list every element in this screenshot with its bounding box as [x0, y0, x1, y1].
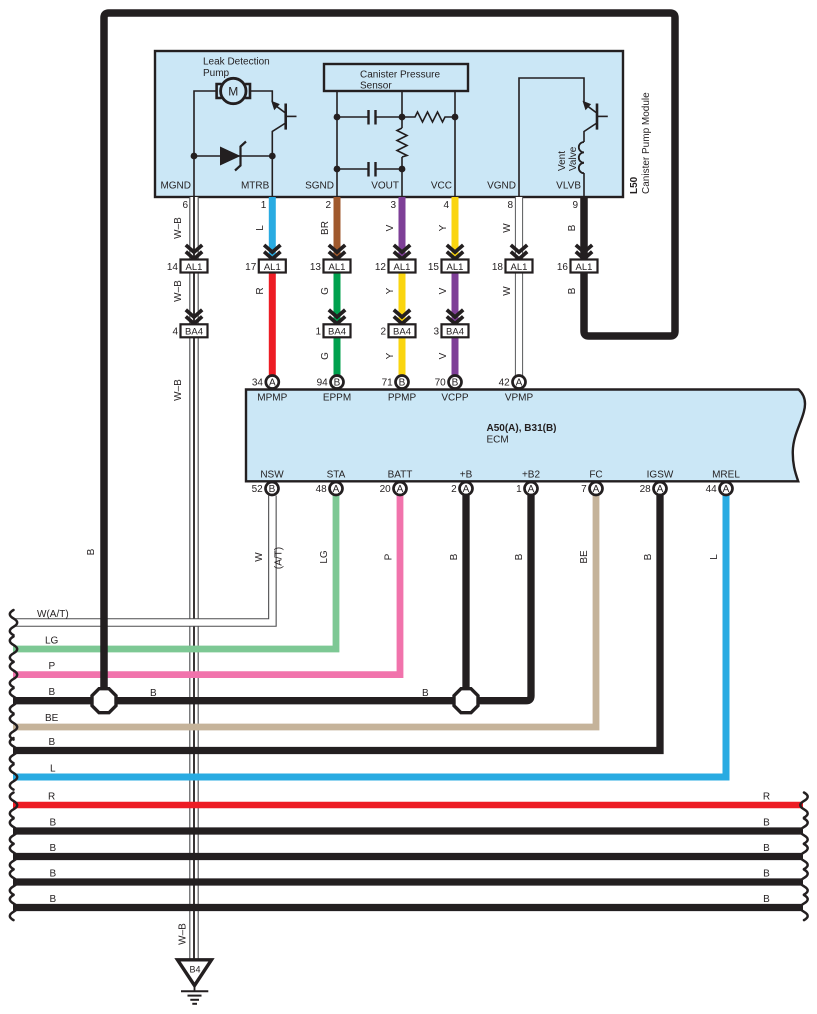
zener diode (pump) — [191, 142, 276, 171]
svg-text:AL1: AL1 — [264, 262, 281, 273]
resistor R2 (vertical) — [397, 128, 407, 157]
wire B (+B drop) — [462, 496, 469, 693]
wire W-B (MGND to ground, full drop) — [189, 197, 199, 960]
svg-text:BA4: BA4 — [185, 327, 203, 338]
bus labels left — [37, 609, 69, 905]
svg-text:VOUT: VOUT — [371, 181, 399, 192]
svg-text:17: 17 — [245, 262, 257, 273]
connector BA4 1 — [315, 324, 350, 337]
rotated wire labels row 2 — [173, 280, 578, 302]
svg-text:13: 13 — [310, 262, 322, 273]
label Leak Detection Pump — [203, 57, 270, 80]
svg-text:B: B — [50, 894, 57, 905]
svg-text:B: B — [49, 687, 56, 698]
svg-text:34: 34 — [252, 378, 264, 389]
svg-text:B: B — [50, 818, 57, 829]
svg-text:MTRB: MTRB — [241, 181, 270, 192]
svg-text:AL1: AL1 — [186, 262, 203, 273]
svg-text:L: L — [709, 554, 720, 560]
svg-text:A50(A), B31(B): A50(A), B31(B) — [487, 423, 557, 434]
svg-text:28: 28 — [640, 484, 652, 495]
svg-text:4: 4 — [172, 327, 178, 338]
connector AL1 15 — [428, 260, 469, 273]
svg-text:16: 16 — [557, 262, 569, 273]
svg-text:R: R — [48, 792, 55, 803]
capacitor C1 (upper) — [337, 110, 402, 125]
svg-text:PPMP: PPMP — [388, 393, 417, 404]
svg-text:B: B — [763, 818, 770, 829]
svg-text:Pump: Pump — [203, 68, 230, 79]
canister pressure sensor box — [324, 64, 468, 91]
svg-text:R: R — [255, 287, 266, 294]
svg-text:48: 48 — [316, 484, 328, 495]
svg-text:B: B — [399, 378, 406, 389]
svg-text:44: 44 — [706, 484, 718, 495]
svg-text:B: B — [763, 843, 770, 854]
svg-text:Valve: Valve — [568, 146, 579, 171]
svg-text:FC: FC — [589, 470, 602, 481]
svg-text:L50: L50 — [629, 176, 640, 194]
svg-text:B: B — [643, 553, 654, 560]
svg-text:A: A — [657, 484, 664, 495]
svg-text:W–B: W–B — [178, 923, 189, 945]
svg-text:(A/T): (A/T) — [274, 547, 285, 569]
junction connector (octagon right) — [454, 689, 478, 713]
wire L (MREL drop + bus line) — [13, 496, 726, 778]
module pin numbers — [182, 200, 578, 211]
wire V (VOUT pin to AL1) — [399, 197, 406, 260]
ECM top pin names — [257, 393, 533, 404]
ECM pin 42 A (VPMP) — [499, 376, 526, 389]
svg-text:Canister Pressure: Canister Pressure — [360, 70, 440, 81]
svg-text:W–B: W–B — [173, 217, 184, 239]
transistor Q (pump driver) — [271, 101, 296, 156]
svg-text:2: 2 — [380, 327, 386, 338]
wire VCC vertical — [454, 91, 456, 197]
wire W (AL1 to VPMP) — [515, 273, 523, 376]
wire B (bus line 2) — [13, 853, 803, 860]
svg-text:EPPM: EPPM — [323, 393, 351, 404]
svg-text:+B2: +B2 — [522, 470, 541, 481]
svg-text:R: R — [763, 792, 770, 803]
svg-text:V: V — [438, 287, 449, 294]
svg-text:LG: LG — [45, 636, 59, 647]
svg-text:NSW: NSW — [260, 470, 284, 481]
svg-text:V: V — [438, 352, 449, 359]
wire W(A/T) (NSW drop + bus line) — [13, 496, 272, 623]
svg-text:12: 12 — [375, 262, 387, 273]
svg-text:+B: +B — [460, 470, 473, 481]
svg-text:BATT: BATT — [388, 470, 413, 481]
svg-text:W: W — [254, 552, 265, 562]
svg-text:B: B — [567, 287, 578, 294]
svg-text:ECM: ECM — [487, 435, 509, 446]
svg-text:STA: STA — [327, 470, 346, 481]
svg-text:1: 1 — [516, 484, 522, 495]
wire V (AL1 to VCPP) — [452, 273, 459, 376]
bus labels right — [763, 792, 770, 906]
wire BR (SGND pin to AL1) — [334, 197, 341, 260]
svg-text:3: 3 — [433, 327, 439, 338]
ECM bottom pin names — [260, 470, 740, 481]
svg-text:G: G — [320, 352, 331, 360]
wire R (AL1 to MPMP) — [269, 273, 276, 376]
junction connector (octagon left) — [92, 689, 116, 713]
rotated wire labels row 3 — [173, 352, 449, 401]
svg-text:B: B — [567, 224, 578, 231]
capacitor C2 (lower) — [337, 162, 402, 177]
svg-text:L: L — [255, 225, 266, 231]
svg-text:B4: B4 — [189, 965, 200, 975]
svg-text:B: B — [86, 548, 97, 555]
svg-text:W(A/T): W(A/T) — [37, 609, 69, 620]
connector BA4 4 — [172, 324, 207, 337]
ECM pin 44 A (MREL) — [706, 482, 733, 495]
ECM pin 34 A (MPMP) — [252, 376, 279, 389]
connector AL1 12 — [375, 260, 416, 273]
connector arrows AL1 row — [186, 245, 592, 259]
svg-text:AL1: AL1 — [511, 262, 528, 273]
wire SGND vertical — [336, 91, 338, 197]
svg-text:IGSW: IGSW — [647, 470, 674, 481]
svg-text:B: B — [150, 688, 157, 699]
junction dots sensor — [334, 114, 341, 121]
svg-text:B: B — [514, 553, 525, 560]
bus labels mid — [150, 688, 429, 699]
svg-text:VCPP: VCPP — [441, 393, 469, 404]
svg-text:B: B — [449, 553, 460, 560]
svg-text:P: P — [49, 661, 56, 672]
svg-text:B: B — [50, 843, 57, 854]
svg-text:Canister Pump Module: Canister Pump Module — [641, 92, 652, 194]
svg-text:Y: Y — [385, 287, 396, 294]
wire B thick (VLVB around border to junction) — [104, 13, 675, 692]
svg-text:AL1: AL1 — [576, 262, 593, 273]
svg-text:Leak Detection: Leak Detection — [203, 57, 270, 68]
svg-text:W–B: W–B — [173, 280, 184, 302]
connector arrows BA4 row — [186, 310, 463, 324]
ECM pin 94 B (EPPM) — [317, 376, 344, 389]
wire B (bus line 4) — [13, 904, 803, 911]
svg-text:B: B — [763, 894, 770, 905]
svg-text:AL1: AL1 — [394, 262, 411, 273]
wire BE (FC drop + bus line) — [13, 496, 596, 728]
svg-text:15: 15 — [428, 262, 440, 273]
svg-text:BE: BE — [579, 550, 590, 564]
motor M (leak detection pump) — [217, 78, 250, 103]
svg-text:1: 1 — [261, 200, 267, 211]
svg-text:A: A — [269, 378, 276, 389]
ECM pin 28 A (IGSW) — [640, 482, 667, 495]
transistor Q2 (vent valve driver) — [583, 101, 608, 142]
svg-text:AL1: AL1 — [447, 262, 464, 273]
wire B (ground bus line) — [13, 697, 466, 704]
svg-text:3: 3 — [390, 200, 396, 211]
svg-text:Vent: Vent — [557, 151, 568, 171]
svg-text:4: 4 — [443, 200, 449, 211]
connector BA4 3 — [433, 324, 468, 337]
wire B (bus line 3) — [13, 878, 803, 885]
svg-text:LG: LG — [319, 550, 330, 564]
svg-text:Sensor: Sensor — [360, 81, 392, 92]
svg-text:71: 71 — [382, 378, 394, 389]
svg-text:B: B — [50, 869, 57, 880]
ECM pin 20 A (BATT) — [380, 482, 407, 495]
wire Y (VCC pin to AL1) — [452, 197, 459, 260]
svg-text:7: 7 — [581, 484, 587, 495]
svg-text:42: 42 — [499, 378, 511, 389]
svg-text:B: B — [334, 378, 341, 389]
svg-text:94: 94 — [317, 378, 329, 389]
svg-text:1: 1 — [315, 327, 321, 338]
ECM pin 7 A (FC) — [581, 482, 602, 495]
wire R (bus line) — [13, 802, 803, 808]
svg-text:W: W — [502, 223, 513, 233]
svg-text:G: G — [320, 287, 331, 295]
svg-text:BA4: BA4 — [328, 327, 346, 338]
wire P (BATT drop + bus line) — [13, 496, 400, 675]
ECM pin 1 A (+B2) — [516, 482, 537, 495]
svg-text:L: L — [50, 764, 56, 775]
svg-text:2: 2 — [325, 200, 331, 211]
svg-text:MPMP: MPMP — [257, 393, 287, 404]
svg-text:B: B — [269, 484, 276, 495]
svg-text:A: A — [593, 484, 600, 495]
ground B4 — [178, 960, 212, 1004]
wire VGND internal — [519, 78, 584, 197]
connector AL1 14 — [167, 260, 208, 273]
bus break squiggles left — [10, 610, 17, 920]
label Vent Valve — [557, 146, 579, 171]
connector AL1 13 — [310, 260, 351, 273]
svg-text:BE: BE — [45, 713, 59, 724]
svg-text:VGND: VGND — [487, 181, 516, 192]
ECM pin 2 A (+B) — [451, 482, 472, 495]
svg-text:W–B: W–B — [173, 379, 184, 401]
svg-text:BR: BR — [320, 221, 331, 235]
svg-text:18: 18 — [492, 262, 504, 273]
wire W (VGND pin to AL1) — [515, 197, 523, 260]
svg-text:MGND: MGND — [160, 181, 191, 192]
connector BA4 2 — [380, 324, 415, 337]
ECM box A50(A) B31(B) — [246, 390, 805, 482]
svg-text:A: A — [723, 484, 730, 495]
svg-text:B: B — [763, 869, 770, 880]
resistor R1 (horizontal) — [402, 112, 455, 122]
svg-text:VPMP: VPMP — [505, 393, 534, 404]
connector AL1 16 — [557, 260, 598, 273]
svg-text:A: A — [463, 484, 470, 495]
svg-text:14: 14 — [167, 262, 179, 273]
vent valve coil — [579, 142, 584, 197]
connector AL1 17 — [245, 260, 286, 273]
ECM pin 48 A (STA) — [316, 482, 343, 495]
svg-text:W: W — [502, 286, 513, 296]
connector AL1 18 — [492, 260, 533, 273]
svg-text:A: A — [516, 378, 523, 389]
wire B (IGSW drop + bus line) — [13, 496, 660, 751]
svg-text:2: 2 — [451, 484, 457, 495]
svg-text:MREL: MREL — [712, 470, 740, 481]
wire MGND internal — [194, 91, 216, 156]
rotated drop-wire labels bottom — [86, 547, 720, 945]
svg-text:BA4: BA4 — [393, 327, 411, 338]
canister pump module box L50 — [155, 51, 623, 197]
svg-text:6: 6 — [182, 200, 188, 211]
svg-text:A: A — [333, 484, 340, 495]
wire L (MTRB pin to AL1) — [269, 197, 276, 260]
svg-text:VLVB: VLVB — [556, 181, 581, 192]
svg-text:9: 9 — [572, 200, 578, 211]
module pin labels — [160, 181, 581, 192]
svg-text:8: 8 — [507, 200, 513, 211]
svg-text:Y: Y — [385, 352, 396, 359]
svg-text:A: A — [397, 484, 404, 495]
wire LG (STA drop + bus line) — [13, 496, 336, 650]
svg-text:52: 52 — [252, 484, 264, 495]
svg-text:AL1: AL1 — [329, 262, 346, 273]
svg-text:70: 70 — [435, 378, 447, 389]
svg-text:SGND: SGND — [305, 181, 334, 192]
wire B (bus line 1) — [13, 827, 803, 834]
svg-text:M: M — [228, 85, 238, 99]
svg-text:A: A — [528, 484, 535, 495]
wire B (+B2 drop + link to junction) — [466, 496, 531, 701]
svg-text:B: B — [452, 378, 459, 389]
rotated wire labels row 1 — [173, 217, 578, 239]
svg-text:B: B — [422, 688, 429, 699]
wire MTRB pin drop — [271, 156, 273, 197]
bus break squiggles right — [800, 793, 807, 921]
svg-text:Y: Y — [438, 224, 449, 231]
wire Y (AL1 to PPMP) — [399, 273, 406, 376]
ECM pin 52 B (NSW) — [252, 482, 279, 495]
wire VOUT vertical — [401, 91, 403, 128]
wire MGND pin drop — [193, 156, 195, 197]
ECM pin 71 B (PPMP) — [382, 376, 409, 389]
svg-text:V: V — [385, 224, 396, 231]
svg-text:VCC: VCC — [431, 181, 452, 192]
svg-text:20: 20 — [380, 484, 392, 495]
svg-text:BA4: BA4 — [446, 327, 464, 338]
svg-text:B: B — [49, 737, 56, 748]
svg-text:P: P — [384, 553, 395, 560]
wire motor to transistor — [251, 91, 272, 102]
wire G (AL1 to EPPM) — [334, 273, 341, 376]
ECM pin 70 B (VCPP) — [435, 376, 462, 389]
